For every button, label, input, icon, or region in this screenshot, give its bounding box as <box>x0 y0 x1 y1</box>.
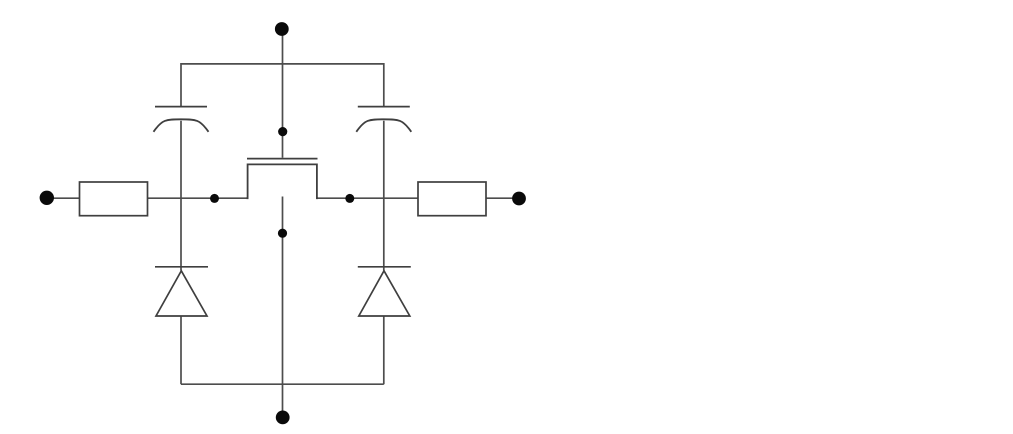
wire resistor R1 to transistor source <box>148 197 248 199</box>
wire right branch vertical (diode to bottom bus) <box>383 316 385 384</box>
wire bottom horizontal bus <box>181 383 384 385</box>
node bottom terminal <box>276 411 290 425</box>
wire left branch vertical (capacitor to diode) <box>180 121 182 271</box>
node left input terminal <box>40 191 54 205</box>
node junction source <box>210 194 219 203</box>
resistor R1 <box>80 182 148 216</box>
diode D1 (left) <box>155 267 208 316</box>
node top terminal <box>275 22 289 36</box>
node junction drain <box>345 194 354 203</box>
resistor R2 <box>418 182 486 216</box>
wire top vertical from top terminal to gate <box>282 29 284 158</box>
capacitor C2 (polarized, right) <box>356 107 411 132</box>
wire transistor drain to resistor R2 <box>317 197 418 199</box>
wire bulk lead to bottom terminal <box>282 197 284 418</box>
transistor Q1 (MOSFET) <box>247 159 319 199</box>
wire left branch vertical (diode to bottom bus) <box>180 316 182 384</box>
wire resistor R2 to right output <box>486 197 519 199</box>
node junction bulk <box>278 229 287 238</box>
wire right branch vertical (capacitor to diode) <box>383 121 385 271</box>
node junction gate <box>278 127 287 136</box>
capacitor C1 (polarized, left) <box>154 107 209 132</box>
wire top horizontal bus <box>181 64 384 107</box>
wire left input to resistor R1 <box>47 197 80 199</box>
diode D2 (right) <box>358 267 411 316</box>
node right output terminal <box>512 192 526 206</box>
